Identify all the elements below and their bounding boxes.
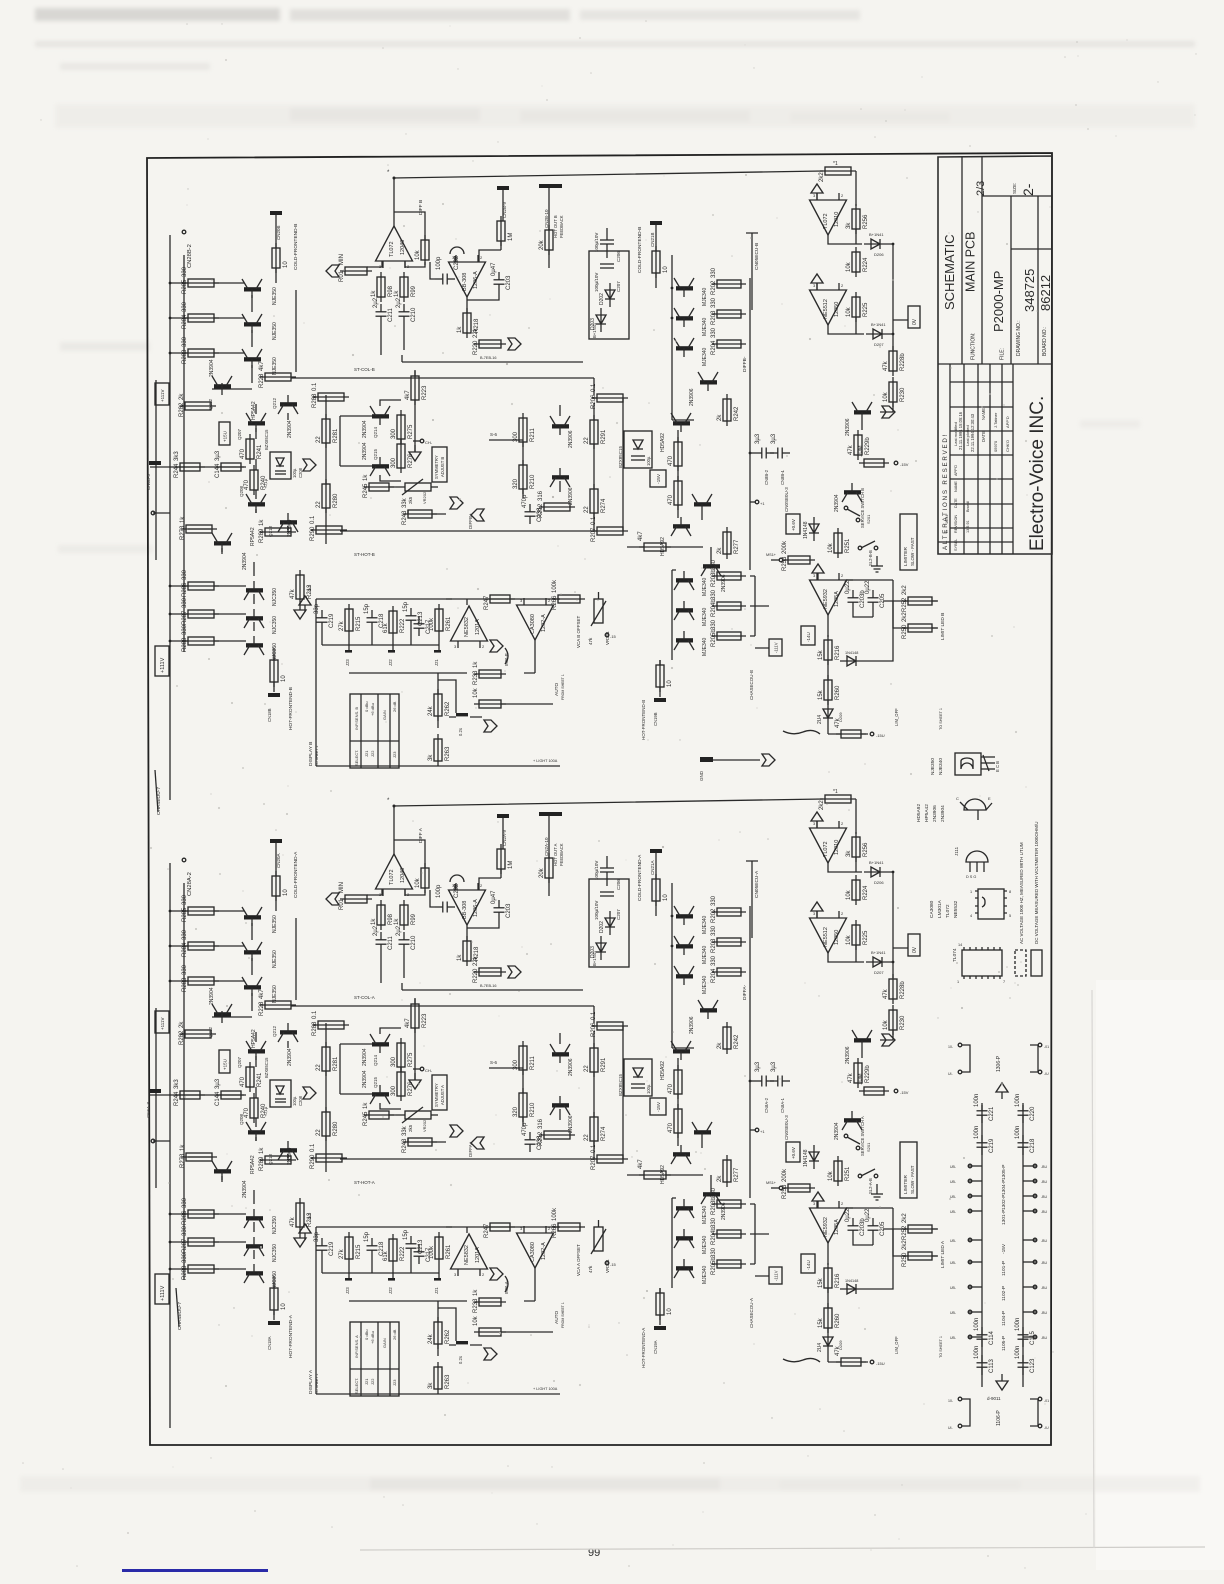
diode D205 1N4148 [840, 656, 864, 666]
ground below R213 [294, 603, 306, 619]
resistor R275 300 [391, 410, 414, 444]
svg-text:+111V: +111V [160, 657, 166, 673]
svg-text:10k: 10k [883, 1019, 889, 1030]
resistor R284 330 [182, 929, 219, 957]
resistor R265 10k [473, 687, 506, 708]
svg-text:AUTO: AUTO [554, 682, 560, 696]
legend solid box DC note [1031, 950, 1042, 976]
junction [958, 1397, 962, 1401]
svg-text:0µ22: 0µ22 [865, 580, 871, 594]
svg-text:R222: R222 [400, 1246, 406, 1261]
svg-text:R204b: R204b [711, 599, 717, 617]
resistor R204 330 [711, 955, 746, 983]
svg-text:CN19B: CN19B [653, 712, 658, 726]
resistor R206 0.1 [591, 1011, 628, 1037]
svg-text:E C B: E C B [995, 761, 1000, 772]
svg-text:330: 330 [182, 1225, 188, 1236]
svg-text:R261: R261 [446, 616, 452, 631]
transistor Q231 2N3906 [701, 557, 721, 576]
transistor Q211 NJC350 [244, 1264, 264, 1283]
svg-text:Q215: Q215 [373, 448, 378, 460]
svg-text:1306-P: 1306-P [996, 1055, 1002, 1072]
transistor Q219 HD5A92 [671, 1145, 691, 1164]
svg-text:2/3: 2/3 [975, 181, 987, 196]
svg-text:100k: 100k [429, 617, 435, 631]
resistor R255 10 [656, 660, 673, 692]
svg-text:8: 8 [1009, 890, 1011, 894]
lower bank wires [214, 1190, 254, 1269]
capacitor [1015, 1126, 1036, 1155]
svg-text:R251: R251 [845, 1166, 851, 1181]
page edge brighter region right [1096, 980, 1224, 1570]
svg-text:R288: R288 [182, 637, 188, 652]
svg-text:3k: 3k [428, 754, 434, 761]
svg-text:C144: C144 [215, 463, 221, 478]
svg-text:TO SHEET 1: TO SHEET 1 [939, 1336, 943, 1358]
junction wire right [888, 872, 908, 978]
left collector bus [295, 290, 297, 372]
svg-text:MIN: MIN [339, 254, 345, 265]
svg-text:470: 470 [668, 1122, 674, 1133]
svg-text:4: 4 [970, 914, 972, 918]
svg-text:*1: *1 [833, 161, 838, 167]
svg-text:R228b: R228b [900, 353, 906, 371]
channel B main bus wires [170, 235, 188, 800]
svg-text:330: 330 [711, 895, 717, 906]
svg-text:2k: 2k [717, 414, 723, 421]
symmetry adjust box [432, 1075, 447, 1110]
junction [182, 858, 186, 862]
capacitor C218 15p [364, 603, 385, 630]
svg-text:NJE350: NJE350 [272, 950, 278, 968]
svg-text:12040: 12040 [400, 868, 406, 883]
svg-text:R287: R287 [182, 1238, 188, 1253]
svg-text:300: 300 [391, 1085, 397, 1096]
connector 1304-P right stub [1023, 1180, 1037, 1182]
junction [1033, 1285, 1037, 1289]
resistor R257 47k [835, 717, 866, 738]
svg-text:-15: -15 [610, 634, 617, 639]
svg-text:4k7: 4k7 [259, 361, 265, 371]
svg-text:47k: 47k [835, 1345, 841, 1356]
resistor R277 2k [717, 527, 740, 559]
svg-text:UB-: UB- [950, 1336, 957, 1340]
diode D206 1N4148 [864, 867, 888, 877]
svg-text:-01: -01 [1044, 1399, 1049, 1403]
svg-text:GAIN: GAIN [382, 1338, 387, 1348]
resistor R241 470 [240, 434, 263, 464]
svg-text:FILE:: FILE: [1000, 348, 1006, 360]
svg-text:1: 1 [970, 890, 972, 894]
svg-text:330: 330 [711, 559, 717, 570]
svg-text:+ LIGHT 100A: + LIGHT 100A [533, 759, 558, 763]
svg-text:22k: 22k [473, 955, 479, 966]
resistor R260 15k [818, 1303, 841, 1333]
svg-text:470: 470 [244, 479, 250, 490]
svg-text:22.11.1994 12:30:43: 22.11.1994 12:30:43 [970, 413, 975, 452]
op-amp U1202 CA3080 channel B [517, 598, 554, 640]
svg-text:R220: R220 [473, 968, 479, 983]
svg-text:4k7: 4k7 [405, 390, 411, 400]
resistor R249 4k7 [638, 531, 671, 551]
resistor R289 1k [259, 1147, 296, 1171]
jumper J23 [345, 650, 352, 653]
svg-text:20k: 20k [539, 239, 545, 250]
svg-text:J22: J22 [388, 1287, 393, 1294]
svg-text:NJE340: NJE340 [938, 758, 944, 775]
trimmer R2 2k5 [396, 1107, 438, 1123]
svg-text:1M: 1M [508, 861, 514, 869]
svg-text:+15U: +15U [223, 431, 228, 442]
svg-text:D207: D207 [874, 970, 884, 975]
capacitor C213 15p [403, 601, 424, 628]
arrow service [882, 406, 895, 418]
svg-text:DRAWING NO.:: DRAWING NO.: [1016, 320, 1022, 356]
svg-text:HD5A92: HD5A92 [916, 804, 922, 822]
connector CN18A [268, 1321, 280, 1325]
svg-text:R222: R222 [400, 618, 406, 633]
svg-text:MJE340: MJE340 [702, 1235, 708, 1254]
svg-text:10k: 10k [846, 889, 852, 900]
svg-text:R251: R251 [845, 538, 851, 553]
svg-text:0.1: 0.1 [312, 1010, 318, 1019]
svg-text:R250: R250 [902, 1252, 908, 1267]
svg-text:22: 22 [584, 1134, 590, 1141]
svg-text:-IU: -IU [1044, 1072, 1049, 1076]
box +111V mid [155, 383, 169, 405]
svg-text:1k: 1k [363, 1102, 369, 1109]
svg-text:R275: R275 [408, 1052, 414, 1067]
svg-text:SLOW - FAST: SLOW - FAST [910, 1165, 915, 1194]
zener D209 2V4 [817, 1330, 833, 1354]
capacitor C203 0µ47 [491, 262, 512, 292]
svg-text:R277: R277 [734, 539, 740, 554]
svg-text:15p: 15p [403, 1229, 409, 1240]
svg-text:R266: R266 [552, 595, 558, 610]
box +0.6V [786, 514, 800, 534]
svg-text:NJE350: NJE350 [272, 915, 278, 933]
svg-text:10k: 10k [828, 1170, 834, 1181]
svg-text:HP5A42: HP5A42 [924, 804, 930, 822]
driver long wire [156, 378, 594, 560]
connector 1304-P left stub [968, 1180, 982, 1182]
svg-text:APP'D: APP'D [1005, 416, 1010, 428]
svg-text:COLD-FRONTEND-A: COLD-FRONTEND-A [637, 854, 643, 901]
resistor R248 10 [272, 871, 289, 901]
svg-text:C208: C208 [298, 1095, 303, 1106]
svg-text:C218: C218 [1030, 1138, 1036, 1153]
service switch B [844, 506, 860, 522]
resistor R215 27k [339, 1232, 362, 1264]
svg-text:NE5532: NE5532 [953, 900, 959, 918]
jumper J21 [434, 650, 441, 653]
dome symbol [450, 247, 464, 254]
svg-text:+1: +1 [760, 1129, 765, 1134]
svg-text:0.1: 0.1 [591, 383, 597, 392]
junction [1033, 1260, 1037, 1264]
svg-text:INP.SENS. B: INP.SENS. B [354, 707, 359, 730]
resistor R01 [339, 882, 372, 910]
diode D207 1N4148 [866, 329, 890, 339]
svg-text:GND: GND [699, 770, 704, 781]
svg-text:MJE340: MJE340 [702, 577, 708, 596]
svg-text:10: 10 [281, 1303, 287, 1310]
svg-text:100n: 100n [974, 1318, 980, 1331]
svg-text:MJE340: MJE340 [702, 975, 708, 994]
svg-text:DISPLAY B: DISPLAY B [308, 742, 314, 766]
svg-text:HOT OUT A: HOT OUT A [553, 843, 558, 866]
ground above NE5932 [812, 564, 824, 580]
resistor R202 330 [711, 267, 746, 295]
box -111V [769, 639, 782, 656]
svg-text:C123: C123 [1030, 1358, 1036, 1373]
resistor R253 200k [782, 540, 815, 571]
svg-text:1k: 1k [371, 918, 377, 925]
svg-text:CN21B: CN21B [650, 232, 655, 247]
resistor R256 3k [846, 832, 869, 862]
svg-text:61k: 61k [383, 1250, 389, 1261]
svg-text:0µ47: 0µ47 [491, 262, 497, 276]
svg-text:2k5: 2k5 [408, 496, 413, 504]
ground below R223 [409, 445, 421, 461]
resistor R266 100k [552, 579, 585, 610]
svg-text:47k: 47k [290, 1216, 296, 1227]
svg-text:+6 dBu: +6 dBu [370, 1331, 375, 1344]
svg-text:0 dBu: 0 dBu [364, 702, 369, 712]
svg-text:C203: C203 [506, 275, 512, 290]
svg-text:NJC350: NJC350 [272, 643, 278, 661]
svg-text:22: 22 [584, 1065, 590, 1072]
svg-text:FEEDBACK: FEEDBACK [559, 215, 564, 238]
feedback wire [394, 212, 425, 240]
junction [755, 1128, 759, 1132]
svg-text:3k: 3k [846, 222, 852, 229]
svg-text:2k: 2k [179, 393, 185, 400]
svg-text:21.11.1991 15:05:16: 21.11.1991 15:05:16 [958, 411, 963, 450]
svg-text:100µ: 100µ [646, 1084, 651, 1094]
page edge line bottom [360, 1547, 1205, 1550]
input network row A [150, 1094, 244, 1096]
resistor R203b 330 [711, 559, 746, 587]
resistor R277 2k [717, 1155, 740, 1187]
junction [968, 1179, 972, 1183]
svg-text:330: 330 [182, 1197, 188, 1208]
svg-text:1k: 1k [473, 1289, 479, 1296]
svg-text:J23: J23 [392, 751, 397, 758]
MJE340 upper column A [672, 883, 750, 1198]
junction [958, 1424, 962, 1428]
svg-text:VCA A OFFSET: VCA A OFFSET [576, 1244, 581, 1276]
svg-text:0.1: 0.1 [310, 1143, 316, 1152]
resistor R274 22 [584, 1112, 607, 1146]
svg-text:100µ: 100µ [292, 468, 297, 478]
svg-text:J111: J111 [954, 846, 959, 856]
connector 1302-P right stub [1023, 1195, 1037, 1197]
svg-text:330: 330 [182, 1252, 188, 1263]
connector 1301-P left stub [968, 1210, 982, 1212]
svg-text:FEEDBACK: FEEDBACK [559, 843, 564, 866]
svg-text:CN8B-2: CN8B-2 [764, 469, 769, 485]
svg-text:S-6: S-6 [490, 432, 498, 437]
svg-text:330: 330 [711, 925, 717, 936]
svg-text:MJE340: MJE340 [702, 915, 708, 934]
svg-text:C220: C220 [1030, 1106, 1036, 1121]
transistor Q225 MJE340 [674, 1199, 694, 1218]
junction [894, 1089, 898, 1093]
resistor R287 330 [182, 597, 219, 625]
svg-text:D202: D202 [599, 293, 605, 305]
svg-text:C207: C207 [616, 281, 621, 292]
revision table grid [938, 364, 1013, 554]
svg-text:1N4148: 1N4148 [845, 1279, 858, 1283]
zener D209 2V4 [817, 702, 833, 726]
svg-text:R224: R224 [863, 885, 869, 900]
svg-text:330: 330 [711, 955, 717, 966]
svg-text:+6 dBu: +6 dBu [370, 703, 375, 716]
svg-text:10k: 10k [846, 261, 852, 272]
transistor Q217 2N3906 [550, 468, 570, 487]
svg-text:DIFFB-: DIFFB- [742, 356, 748, 372]
resistor R280 22 [316, 1107, 339, 1141]
svg-text:320: 320 [513, 1106, 519, 1117]
svg-text:R202: R202 [711, 908, 717, 923]
svg-text:-IU: -IU [1044, 1426, 1049, 1430]
svg-text:R205b: R205b [711, 1257, 717, 1275]
svg-text:SERVICE SWITCH A: SERVICE SWITCH A [860, 1116, 865, 1156]
display table B [350, 694, 399, 768]
svg-text:R210: R210 [530, 1102, 536, 1117]
svg-text:2k2: 2k2 [902, 1240, 908, 1250]
svg-text:R243: R243 [402, 1138, 408, 1153]
resistor R259 2k2 [819, 167, 856, 182]
svg-text:15p: 15p [364, 603, 370, 614]
capacitor C213 15p [403, 1229, 424, 1256]
wires below caps [381, 324, 404, 355]
resistor R245 1k [363, 1102, 394, 1126]
resistor R233 1k [473, 1289, 506, 1313]
svg-text:470: 470 [240, 1076, 246, 1087]
ground above NE5512 [811, 902, 823, 918]
junction [1033, 1164, 1037, 1168]
svg-text:-BU: -BU [1041, 1239, 1048, 1243]
connector 1302-P left stub [968, 1195, 982, 1197]
transistor Q223 MJE340 [674, 308, 694, 327]
connector CN19A [654, 1326, 666, 1330]
svg-text:R250: R250 [902, 624, 908, 639]
ground [996, 1083, 1008, 1099]
svg-text:47k: 47k [835, 717, 841, 728]
svg-text:R263: R263 [445, 746, 451, 761]
svg-text:R253: R253 [782, 1184, 788, 1199]
svg-text:470: 470 [244, 1107, 250, 1118]
resistor R01 [339, 254, 372, 282]
arrow left mid [471, 1137, 484, 1149]
resistor R243 470 [668, 1065, 682, 1099]
svg-text:10k: 10k [473, 687, 479, 698]
zener box D210 with C208 [270, 1080, 291, 1107]
svg-text:ADJUST A: ADJUST A [440, 1085, 445, 1105]
resistor R260 15k [818, 675, 841, 705]
svg-text:15p: 15p [364, 1231, 370, 1242]
svg-text:12010: 12010 [834, 212, 840, 227]
svg-text:R276: R276 [408, 453, 414, 468]
wires below caps [381, 952, 404, 983]
junction [968, 1194, 972, 1198]
svg-text:R233: R233 [473, 1298, 479, 1313]
svg-text:UB-: UB- [950, 1311, 957, 1315]
svg-text:SERVICE SWITCH B: SERVICE SWITCH B [860, 488, 865, 528]
svg-text:J21: J21 [364, 1378, 369, 1385]
connector CN6B-3 [149, 461, 161, 465]
connector 1101-P left stub [968, 1261, 982, 1263]
svg-text:2µ2: 2µ2 [396, 925, 402, 936]
svg-text:R274: R274 [601, 498, 607, 513]
svg-text:SYBEL: SYBEL [954, 539, 958, 551]
svg-text:B+1N41: B+1N41 [869, 860, 884, 865]
svg-text:100k: 100k [429, 1245, 435, 1259]
svg-text:10-: 10- [948, 1045, 954, 1049]
transistor Q213 RP5A42 [278, 513, 298, 532]
svg-text:P2000-MP: P2000-MP [991, 271, 1006, 332]
svg-text:LIM_OFF: LIM_OFF [894, 708, 899, 726]
box +15U [219, 1050, 230, 1073]
svg-text:AC VOLTAGE 1000 HZ, MEASURED W: AC VOLTAGE 1000 HZ, MEASURED WITH UTUM [1019, 842, 1024, 944]
input network row B [150, 466, 244, 468]
svg-text:R275: R275 [408, 424, 414, 439]
svg-text:ST-HOT-B: ST-HOT-B [354, 552, 375, 557]
box -14U [801, 1254, 815, 1273]
svg-text:C115: C115 [1030, 1330, 1036, 1345]
connector 1301-P right stub [1023, 1210, 1037, 1212]
zener BZX85C15 box [624, 431, 652, 468]
svg-text:UB-: UB- [950, 1210, 957, 1214]
svg-text:C210: C210 [411, 935, 417, 950]
jumper J23 [345, 1278, 352, 1281]
svg-text:HD5A92: HD5A92 [660, 433, 666, 452]
svg-text:D206: D206 [874, 880, 884, 885]
arrow out bias [303, 1087, 316, 1099]
svg-text:R: R [945, 530, 949, 533]
svg-text:CN19A: CN19A [653, 1340, 658, 1354]
svg-text:1302-P: 1302-P [1001, 1195, 1007, 1210]
svg-text:TO SHEET 1: TO SHEET 1 [315, 746, 319, 766]
svg-text:316: 316 [538, 490, 544, 501]
box -14U [801, 626, 815, 645]
svg-text:R262: R262 [445, 1329, 451, 1344]
svg-text:R228: R228 [259, 1001, 265, 1016]
svg-text:TL072: TL072 [823, 841, 829, 857]
svg-text:100k: 100k [552, 1207, 558, 1221]
svg-text:0.2s: 0.2s [458, 728, 463, 736]
ground above NE5932 [812, 1192, 824, 1208]
resistor R203b 330 [711, 1187, 746, 1215]
box +111V lower [155, 1274, 169, 1304]
svg-text:TL072: TL072 [389, 869, 395, 885]
resistor R290 0.1 [310, 515, 347, 541]
svg-text:2U4: 2U4 [817, 715, 823, 724]
svg-text:3k: 3k [846, 850, 852, 857]
box +111V mid [155, 1011, 169, 1033]
svg-text:-BU: -BU [1041, 1311, 1048, 1315]
svg-text:2µ2: 2µ2 [396, 297, 402, 308]
svg-text:R205b: R205b [711, 629, 717, 647]
svg-text:VR202: VR202 [422, 1119, 427, 1132]
svg-text:NJE350: NJE350 [272, 322, 278, 340]
svg-text:330: 330 [711, 1187, 717, 1198]
wavy wire [783, 730, 820, 734]
capacitor [974, 1318, 995, 1347]
resistor R286 330 [182, 1197, 219, 1225]
